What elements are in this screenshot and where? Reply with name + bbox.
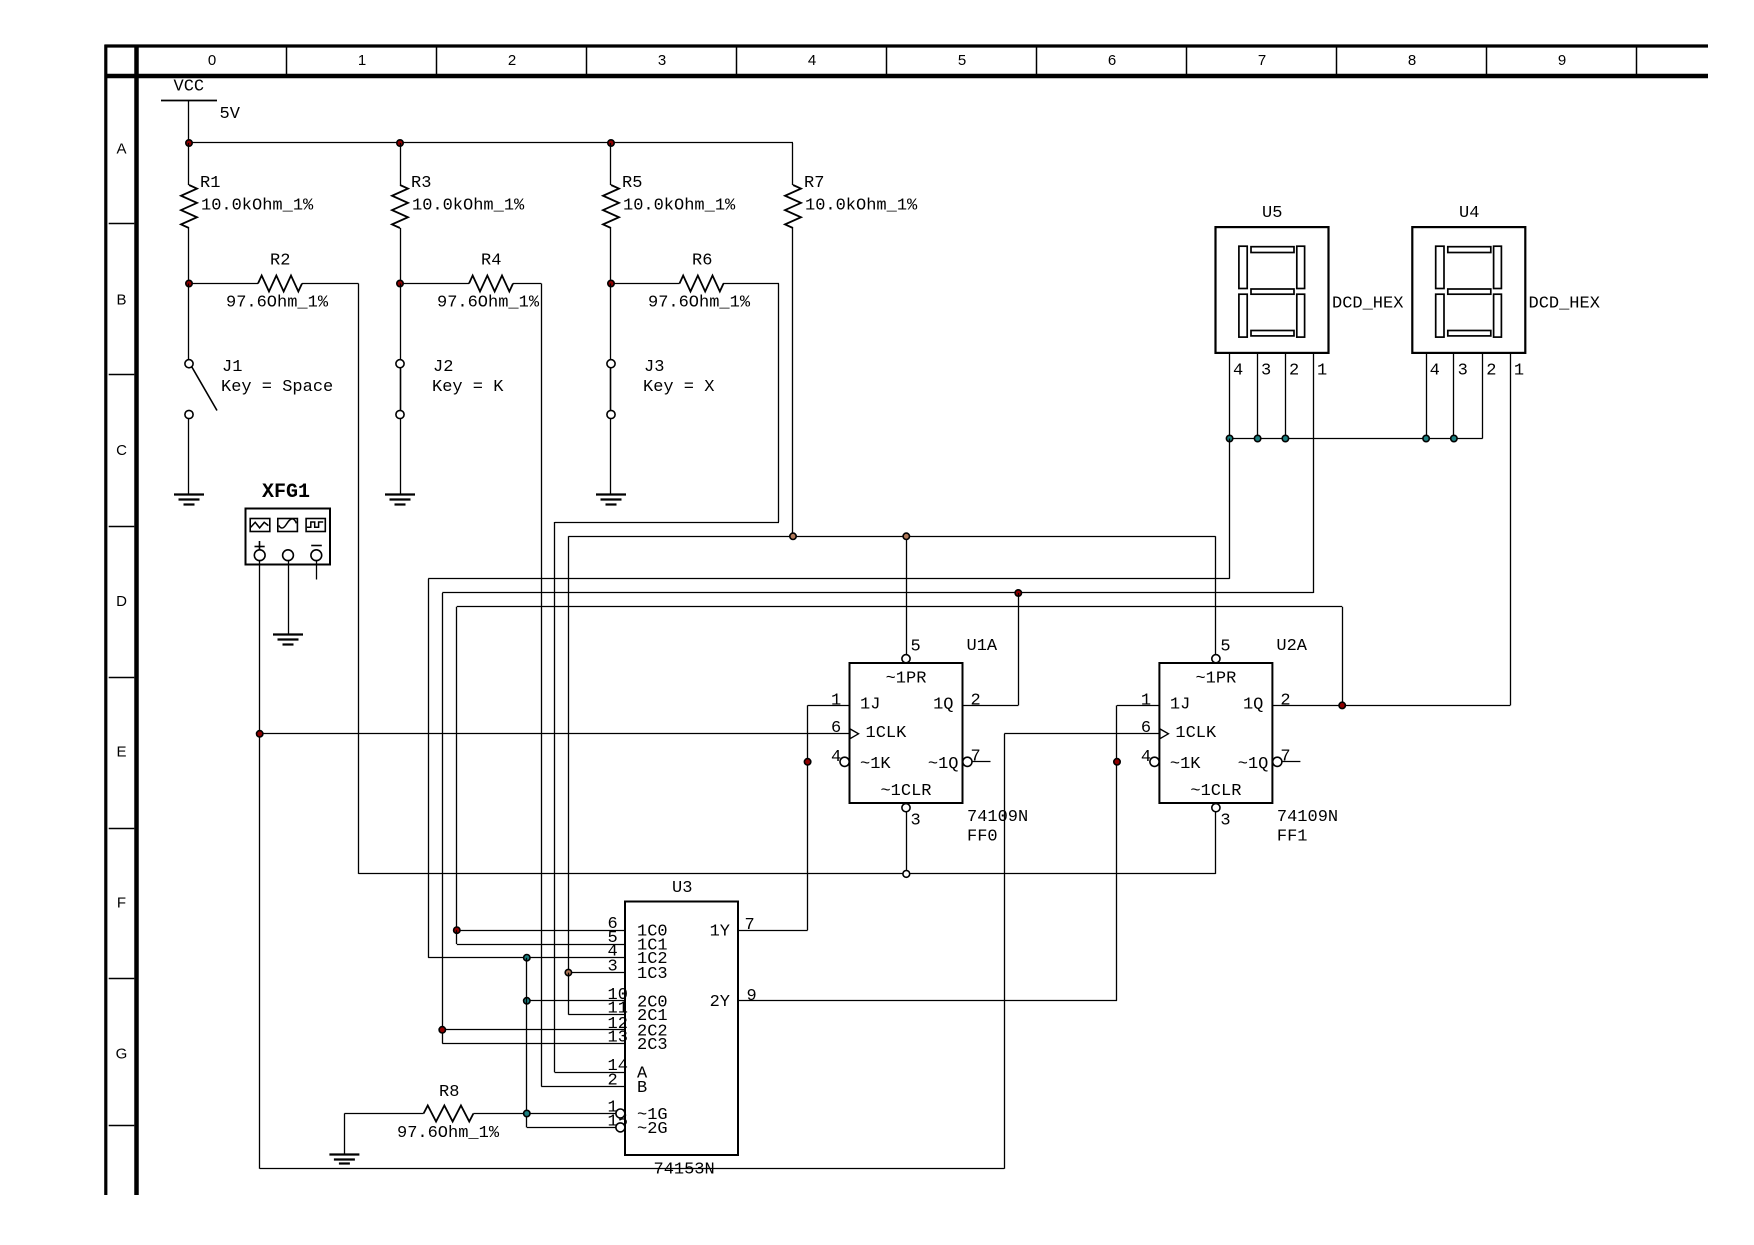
svg-text:R7: R7 (804, 174, 824, 193)
svg-text:VCC: VCC (174, 78, 205, 97)
svg-text:97.6Ohm_1%: 97.6Ohm_1% (226, 294, 329, 313)
ground below XFG1 common (273, 635, 303, 645)
svg-text:7: 7 (971, 748, 981, 767)
svg-text:9: 9 (1558, 52, 1566, 69)
wire: display bus down from U5 pin4 (1229, 439, 1231, 579)
svg-text:D: D (116, 593, 127, 610)
svg-text:A: A (116, 141, 126, 158)
svg-text:G: G (116, 1045, 128, 1062)
wire: U3 1C2 input (428, 957, 625, 959)
wire: R7 preset net horizontal (568, 536, 1215, 538)
svg-text:5: 5 (911, 638, 921, 657)
svg-text:2: 2 (508, 52, 516, 69)
switch J1 Key = Space (open) (185, 284, 333, 495)
ground below J2 (385, 495, 415, 505)
node: U1A 1Q rises to net (1015, 590, 1021, 596)
node: XFG1 output junction (257, 731, 263, 737)
node: junction R1/R2/J1 (186, 280, 192, 286)
svg-text:10.0kOhm_1%: 10.0kOhm_1% (412, 197, 525, 216)
wire: V6 down to 2C1 (568, 973, 570, 1015)
wire: U5 pin1 down to D-row (1313, 353, 1315, 593)
wire: U3 1C3 input (568, 972, 625, 974)
wire: U1A 1Q net down to 2C2/2C3 (442, 593, 444, 1044)
wire: CLR net horizontal to U1A/U2A ~1CLR (359, 873, 1216, 875)
wire: U4 pin2 down (1482, 353, 1484, 439)
svg-text:10.0kOhm_1%: 10.0kOhm_1% (623, 197, 736, 216)
svg-text:~1K: ~1K (860, 755, 891, 774)
node: VCC junction at R1 (186, 140, 192, 146)
wire: R6 net down to U3 A select (554, 522, 556, 1072)
wire: R6/J3 node down (778, 284, 780, 523)
row letters A-G (116, 141, 128, 1063)
svg-text:~1PR: ~1PR (1195, 670, 1236, 689)
wire: R8 left down to ground (344, 1114, 346, 1155)
wire: R6 net horizontal at D-row (555, 522, 779, 524)
wire: U1A 1Q output (963, 705, 1019, 707)
svg-text:97.6Ohm_1%: 97.6Ohm_1% (648, 294, 751, 313)
node: CLR net at U1A (open dot) (903, 871, 910, 878)
node: R7 lead joins preset net (790, 533, 796, 539)
svg-text:7: 7 (745, 916, 755, 935)
svg-text:5: 5 (958, 52, 966, 69)
resistor R2 97.6Ohm_1% (189, 252, 359, 313)
svg-text:3: 3 (1220, 812, 1230, 831)
wire: U3 1Y output horizontal (738, 930, 808, 932)
wire: teal chain down from 1C2 (526, 958, 528, 1128)
wire: U3 2C2 input (442, 1029, 625, 1031)
switch J2 Key = K (closed) (396, 284, 504, 495)
wire: U5 pin2 down (1285, 353, 1287, 439)
svg-text:2Y: 2Y (710, 993, 730, 1012)
wire: U2A ~1CLR down to CLR net (1215, 812, 1217, 874)
svg-text:B: B (116, 291, 126, 308)
svg-text:1C3: 1C3 (637, 965, 668, 984)
svg-text:1: 1 (1514, 362, 1524, 381)
svg-text:U4: U4 (1459, 204, 1479, 223)
svg-text:74109N: 74109N (967, 808, 1028, 827)
node: junction R5/R6/J3 (608, 280, 614, 286)
wire: XFG1 common down (288, 561, 290, 635)
node: U2A ~1K junction (1114, 759, 1120, 765)
svg-text:1: 1 (1317, 362, 1327, 381)
svg-text:3: 3 (1458, 362, 1468, 381)
svg-text:~1Q: ~1Q (928, 755, 959, 774)
flip-flop U2A 74109N FF1 (1141, 637, 1338, 847)
flip-flop U1A 74109N FF0 (831, 637, 1028, 847)
resistor R1 10.0kOhm_1% (181, 143, 314, 284)
svg-text:3: 3 (1261, 362, 1271, 381)
wire: U2A 1Q net down to 1C0/1C1 (456, 607, 458, 930)
wire: U2A 1J input (1117, 705, 1159, 707)
node: 1C0 junction (454, 927, 460, 933)
resistor R5 10.0kOhm_1% (603, 143, 736, 284)
svg-text:J3: J3 (644, 358, 664, 377)
svg-text:R8: R8 (439, 1083, 459, 1102)
svg-text:XFG1: XFG1 (262, 481, 310, 504)
wire: U2A 1Q net horizontal (457, 606, 1342, 608)
svg-text:5: 5 (1220, 638, 1230, 657)
svg-text:R5: R5 (622, 174, 642, 193)
wire: U5 pin4 down (1229, 353, 1231, 439)
svg-text:~1PR: ~1PR (886, 670, 927, 689)
VCC power symbol (161, 78, 241, 144)
svg-text:1Q: 1Q (933, 696, 953, 715)
wire: VCC bus A-row (189, 142, 793, 144)
svg-text:2: 2 (1289, 362, 1299, 381)
svg-text:1: 1 (831, 692, 841, 711)
wire: R4 B-select corner into U3 pin 2 (541, 1086, 625, 1088)
resistor R8 97.6Ohm_1% (344, 1083, 499, 1143)
column numbers 0-9 (208, 52, 1566, 69)
svg-text:R1: R1 (200, 174, 220, 193)
svg-text:97.6Ohm_1%: 97.6Ohm_1% (397, 1124, 500, 1143)
svg-text:4: 4 (1430, 362, 1440, 381)
multiplexer U3 74153N (608, 879, 757, 1180)
wire: U1A ~1CLR down to CLR net (906, 812, 908, 874)
svg-text:9: 9 (747, 987, 757, 1006)
wire: U3 2C3 input (442, 1043, 625, 1045)
node: 1C3 junction (565, 969, 571, 975)
svg-text:1Q: 1Q (1243, 696, 1263, 715)
wire: V3 corner segment to 1C1 (456, 930, 458, 944)
svg-text:J2: J2 (433, 358, 453, 377)
svg-text:13: 13 (608, 1029, 628, 1048)
node: VCC junction at R3 (397, 140, 403, 146)
wire: A-select corner into U3 pin 14 (555, 1072, 625, 1074)
node: bus dot U4 pin3 (1451, 435, 1457, 441)
wire: U1A 1Q rise (1018, 593, 1020, 705)
svg-text:1CLK: 1CLK (1175, 724, 1217, 743)
svg-text:4: 4 (831, 748, 841, 767)
ground at R8 (329, 1155, 359, 1164)
node: 1C2 teal junction (524, 955, 530, 961)
node: U1A ~1K junction (804, 759, 810, 765)
wire: U3 2C0 input (527, 1000, 625, 1002)
wire: U4 pin3 down (1453, 353, 1455, 439)
node: ~1G teal junction (524, 1110, 530, 1116)
svg-text:6: 6 (831, 719, 841, 738)
wire: clock line from XFG1 to U1A (260, 733, 850, 735)
svg-text:6: 6 (1108, 52, 1116, 69)
wire: display bus horizontal C-row (1230, 438, 1483, 440)
wire: U1A 1Q net horizontal (442, 592, 1313, 594)
svg-text:J1: J1 (222, 358, 242, 377)
svg-text:3: 3 (911, 812, 921, 831)
svg-text:2: 2 (971, 692, 981, 711)
wire: R2/J1 node down to CLR net (358, 284, 360, 874)
svg-text:Key = X: Key = X (643, 378, 714, 397)
svg-text:1Y: 1Y (710, 923, 730, 942)
svg-text:97.6Ohm_1%: 97.6Ohm_1% (437, 294, 540, 313)
svg-text:3: 3 (658, 52, 666, 69)
wire: U3 2C1 input (568, 1014, 625, 1016)
node: bus dot U5 pin4 (1226, 435, 1232, 441)
7-segment display U4 DCD_HEX (1412, 204, 1600, 381)
svg-text:U2A: U2A (1276, 637, 1307, 656)
wire: U1A 1J input (808, 705, 850, 707)
wire: U2A 1Q output to U4 pin1 (1272, 705, 1510, 707)
svg-text:1: 1 (1141, 692, 1151, 711)
svg-text:C: C (116, 442, 127, 459)
wire: display net down to 1C2 (428, 579, 430, 958)
svg-text:1J: 1J (1170, 696, 1190, 715)
svg-text:U1A: U1A (967, 637, 998, 656)
svg-text:6: 6 (1141, 719, 1151, 738)
svg-text:10.0kOhm_1%: 10.0kOhm_1% (805, 197, 918, 216)
svg-text:Key = Space: Key = Space (221, 378, 333, 397)
svg-text:F: F (117, 895, 126, 912)
svg-text:1J: 1J (860, 696, 880, 715)
svg-text:4: 4 (808, 52, 816, 69)
wire: preset net down to U1A pin5 (906, 536, 908, 654)
ground below J3 (596, 495, 626, 505)
svg-text:R4: R4 (481, 252, 501, 271)
svg-text:1CLK: 1CLK (866, 724, 908, 743)
svg-text:Key = K: Key = K (432, 378, 504, 397)
wire: R7 preset net down to 1C3/2C1 (568, 536, 570, 972)
node: U2A 1Q branch up (1339, 702, 1345, 708)
wire: clock feed into U2A CLK (1004, 733, 1159, 735)
svg-text:2: 2 (608, 1072, 618, 1091)
wire: U3 ~1G input from R8 (473, 1113, 616, 1115)
wire: U3 2Y up to U2A 1J/~1K (1116, 705, 1118, 1000)
svg-text:U5: U5 (1262, 204, 1282, 223)
svg-text:2: 2 (1486, 362, 1496, 381)
svg-text:74109N: 74109N (1277, 808, 1338, 827)
svg-text:~1CLR: ~1CLR (880, 782, 931, 801)
svg-text:B: B (637, 1079, 647, 1098)
svg-text:4: 4 (1141, 748, 1151, 767)
wire: U2A 1Q net right corner down (1342, 607, 1344, 706)
7-segment display U5 DCD_HEX (1216, 204, 1404, 381)
svg-text:10.0kOhm_1%: 10.0kOhm_1% (201, 197, 314, 216)
svg-text:0: 0 (208, 52, 216, 69)
svg-text:2C3: 2C3 (637, 1036, 668, 1055)
svg-text:3: 3 (608, 958, 618, 977)
svg-text:E: E (116, 744, 126, 761)
wire: U3 1Y up to U1A 1J/~1K (807, 705, 809, 930)
node: VCC junction at R5 (608, 140, 614, 146)
svg-text:DCD_HEX: DCD_HEX (1332, 295, 1403, 314)
wire: U3 1C0 input (457, 930, 625, 932)
wire: U3 1C1 input (457, 944, 625, 946)
svg-text:8: 8 (1408, 52, 1416, 69)
ground below J1 (174, 495, 204, 505)
node: bus dot U5 pin2 (1282, 435, 1288, 441)
node: 2C2 junction (439, 1027, 445, 1033)
svg-text:FF1: FF1 (1277, 828, 1308, 847)
svg-text:R3: R3 (411, 174, 431, 193)
wire: U4 pin1 down to U2A 1Q (1510, 353, 1512, 706)
svg-text:~1Q: ~1Q (1238, 755, 1269, 774)
wire: U3 ~2G input (527, 1127, 616, 1129)
resistor R4 97.6Ohm_1% (400, 252, 541, 313)
wire: R4/J2 node down to U3 B select (541, 284, 543, 1087)
wire: bottom clock feed to U2A (260, 1168, 1005, 1170)
svg-text:U3: U3 (672, 879, 692, 898)
wire: display net horizontal to 1C2 (428, 578, 1229, 580)
node: 2C0 teal junction (524, 998, 530, 1004)
wire: preset net down to U2A pin5 (1215, 536, 1217, 654)
wire: clock feed rises at right of U1A (1004, 734, 1006, 1169)
svg-text:5V: 5V (220, 105, 241, 124)
svg-text:FF0: FF0 (967, 828, 998, 847)
wire: XFG1 + output down (259, 561, 261, 1169)
svg-text:2: 2 (1280, 692, 1290, 711)
svg-text:R2: R2 (270, 252, 290, 271)
resistor R6 97.6Ohm_1% (611, 252, 779, 313)
wire: U4 pin4 down (1426, 353, 1428, 439)
svg-text:R6: R6 (692, 252, 712, 271)
svg-text:1: 1 (358, 52, 366, 69)
node: bus dot U4 pin4 (1423, 435, 1429, 441)
svg-text:7: 7 (1258, 52, 1266, 69)
svg-text:74153N: 74153N (654, 1161, 715, 1180)
svg-text:4: 4 (1233, 362, 1243, 381)
resistor R7 10.0kOhm_1% (785, 143, 918, 536)
svg-text:~1CLR: ~1CLR (1190, 782, 1241, 801)
wire: U5 pin3 down (1257, 353, 1259, 439)
switch J3 Key = X (closed) (607, 284, 715, 495)
wire: U3 2Y output horizontal (738, 1000, 1117, 1002)
svg-text:~1K: ~1K (1170, 755, 1201, 774)
node: preset net at U1A pin5 branch (903, 533, 909, 539)
resistor R3 10.0kOhm_1% (392, 143, 525, 284)
node: junction R3/R4/J2 (397, 280, 403, 286)
node: bus dot U5 pin3 (1254, 435, 1260, 441)
svg-text:DCD_HEX: DCD_HEX (1529, 295, 1600, 314)
svg-text:~2G: ~2G (637, 1120, 668, 1139)
svg-text:7: 7 (1280, 748, 1290, 767)
function generator XFG1 (246, 481, 331, 565)
wire: XFG1 - stub (316, 561, 318, 580)
